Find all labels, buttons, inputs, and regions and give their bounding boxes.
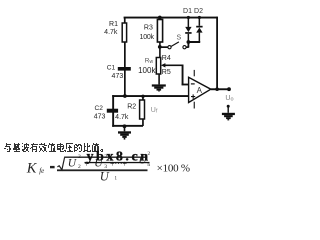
node junction C1 line on rail xyxy=(123,94,127,98)
svg-text:R2: R2 xyxy=(127,104,136,111)
svg-text:S: S xyxy=(177,35,182,42)
svg-text:R1: R1 xyxy=(109,21,118,28)
resistor R3 xyxy=(140,20,163,58)
node junction R3 bottom switch xyxy=(158,45,162,49)
ground under output Uo xyxy=(222,105,235,121)
svg-text:100k: 100k xyxy=(140,34,155,41)
svg-text:1: 1 xyxy=(115,176,118,181)
svg-text:R5: R5 xyxy=(162,69,171,76)
resistor R1 xyxy=(104,17,126,42)
svg-text:fe: fe xyxy=(39,167,44,175)
svg-text:U: U xyxy=(68,158,77,170)
svg-text:4.7k: 4.7k xyxy=(104,29,118,36)
svg-text:U: U xyxy=(100,169,110,183)
svg-text:R4: R4 xyxy=(162,55,171,62)
svg-text:D2: D2 xyxy=(194,8,203,15)
node output terminal dot xyxy=(227,87,231,91)
wiper arrow of Rw xyxy=(161,63,166,67)
node junction R2 top xyxy=(141,95,144,98)
diode D2 xyxy=(194,8,203,42)
svg-text:D1: D1 xyxy=(183,8,192,15)
svg-text:R3: R3 xyxy=(144,24,153,31)
wire bottom rail C2 to R2 xyxy=(112,125,143,127)
svg-text:C2: C2 xyxy=(94,105,103,112)
svg-text:Uf: Uf xyxy=(151,107,158,115)
switch S xyxy=(160,35,190,49)
wire right vertical from top rail to output node xyxy=(216,17,218,90)
svg-text:A: A xyxy=(197,86,203,95)
svg-text:2: 2 xyxy=(78,164,81,170)
ground under C2 R2 rail xyxy=(118,124,131,139)
ground under Rw xyxy=(152,74,166,92)
node junction feedback output xyxy=(215,87,219,91)
svg-text:K: K xyxy=(26,161,38,177)
wire top feedback rail xyxy=(124,17,218,19)
svg-text:473: 473 xyxy=(112,73,124,80)
svg-text:4.7k: 4.7k xyxy=(115,114,129,121)
watermark ybx8.cn xyxy=(85,150,150,165)
svg-text:Rw: Rw xyxy=(145,57,154,65)
svg-text:C1: C1 xyxy=(107,65,116,72)
capacitor C1 xyxy=(107,65,131,81)
wire diode bottom rail xyxy=(188,41,201,43)
wire wiper to inverting input xyxy=(165,65,189,86)
svg-text:100k: 100k xyxy=(138,66,156,75)
svg-text:473: 473 xyxy=(94,114,106,121)
node junction R3 top on rail xyxy=(158,16,162,20)
svg-text:×100 %: ×100 % xyxy=(157,162,191,174)
node junction diode bottom xyxy=(187,40,191,44)
wire op-amp output xyxy=(211,88,230,90)
svg-text:2: 2 xyxy=(78,154,81,160)
wire left vertical R1 to noninverting rail xyxy=(124,42,126,97)
op-amp U1 xyxy=(189,70,211,109)
capacitor C2 xyxy=(94,105,118,121)
wire noninverting input rail xyxy=(112,95,189,97)
diode D1 xyxy=(183,8,192,42)
formula K_fe xyxy=(26,151,190,183)
potentiometer Rw body xyxy=(138,55,171,76)
caption chinese text placeholder xyxy=(4,143,103,152)
svg-text:Uo: Uo xyxy=(225,95,233,103)
resistor R2 xyxy=(115,97,144,127)
wire C2 branch vertical xyxy=(112,95,114,127)
